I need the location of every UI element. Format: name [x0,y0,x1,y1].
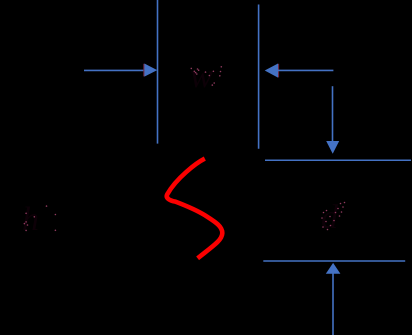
arrowhead (down arrow to top d line) [326,141,339,154]
arrowhead (up arrow to bottom d line) [326,263,341,274]
top d line [265,159,411,161]
bottom d line [263,260,405,262]
svg-text:d: d [321,199,339,236]
speck dots (w) [191,66,223,86]
wire (vertical leader above d) [332,86,334,141]
right extension line (w dimension, right) [258,5,260,149]
wire (vertical leader below d) [332,273,334,335]
svg-text:w: w [190,58,213,95]
wire (left w arrow tail) [84,69,146,71]
speck dots (d) [321,202,345,231]
speck dots (left label) [24,205,57,231]
svg-text:h: h [22,201,39,238]
left extension line (w dimension, left) [157,0,159,144]
red S-curve [167,159,223,259]
wire (right w arrow tail) [278,69,333,71]
arrowhead (left w arrow, pointing right) [143,64,145,77]
arrowhead (right w arrow, pointing left) [278,64,280,78]
